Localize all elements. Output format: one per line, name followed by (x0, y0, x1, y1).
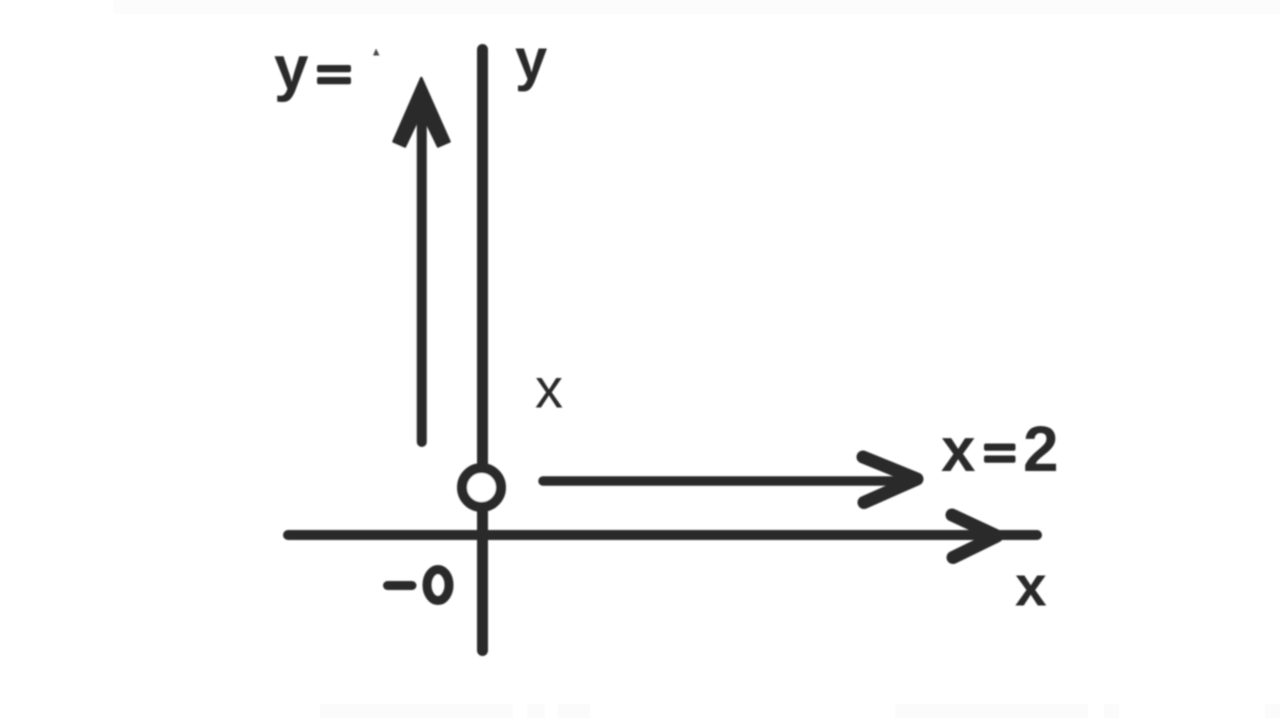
svg-text:2: 2 (1023, 413, 1059, 485)
wire y-axis (477, 50, 488, 651)
faint bottom band right (895, 704, 1088, 718)
label -0 (388, 581, 413, 590)
svg-text:y: y (274, 34, 309, 103)
svg-text:x: x (941, 416, 976, 485)
node open circle at origin (462, 468, 501, 507)
tiny stray mark (373, 49, 380, 56)
svg-text:y: y (515, 28, 547, 93)
vertical arrowhead (filled dart) (394, 78, 450, 147)
wire x-axis (288, 530, 1037, 540)
svg-text:x: x (1015, 555, 1047, 619)
vertical arrow shaft (417, 100, 427, 442)
faint top band (113, 0, 1280, 14)
faint bottom band left (320, 704, 513, 718)
x=2 arrow shaft (543, 476, 905, 486)
x-axis arrowhead (952, 515, 997, 558)
x=2 arrowhead (863, 457, 917, 503)
svg-text:x: x (535, 357, 563, 420)
